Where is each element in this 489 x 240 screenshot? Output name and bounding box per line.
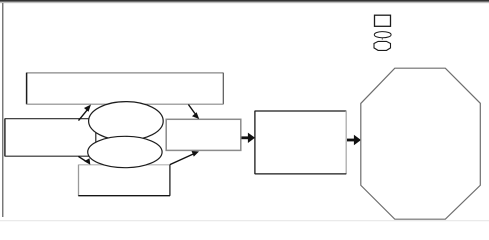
frame bottom faint line xyxy=(0,220,489,222)
legend ellipse xyxy=(374,32,391,38)
legend octagon xyxy=(374,41,391,50)
ellipse E2 (lower ellipse) xyxy=(88,136,162,167)
ellipse E1 (upper ellipse) xyxy=(89,102,164,141)
rectangle R4 (bottom box) xyxy=(78,165,170,196)
arrow A3 (left box to bottom box) xyxy=(78,156,90,164)
legend ellipse bottom tick xyxy=(381,38,383,39)
rectangle R5 (right box) xyxy=(255,111,347,174)
arrow A2 (top box to middle box) xyxy=(188,105,199,120)
legend rectangle xyxy=(375,15,391,26)
arrow A1 (left box to top box) xyxy=(79,105,92,121)
arrow A4 (bottom box to middle box) xyxy=(170,151,199,165)
rectangle R1 (top wide box) xyxy=(26,73,223,105)
arrow A5 (middle box to right box, thick) xyxy=(242,133,256,143)
rectangle R3 (middle box) xyxy=(166,119,241,150)
rectangle R2 (left box) xyxy=(5,119,96,157)
frame top border xyxy=(0,0,489,3)
octagon O1 (large) xyxy=(361,68,481,219)
frame left border xyxy=(2,3,4,217)
arrow A6 (right box to octagon, thick) xyxy=(347,135,361,145)
